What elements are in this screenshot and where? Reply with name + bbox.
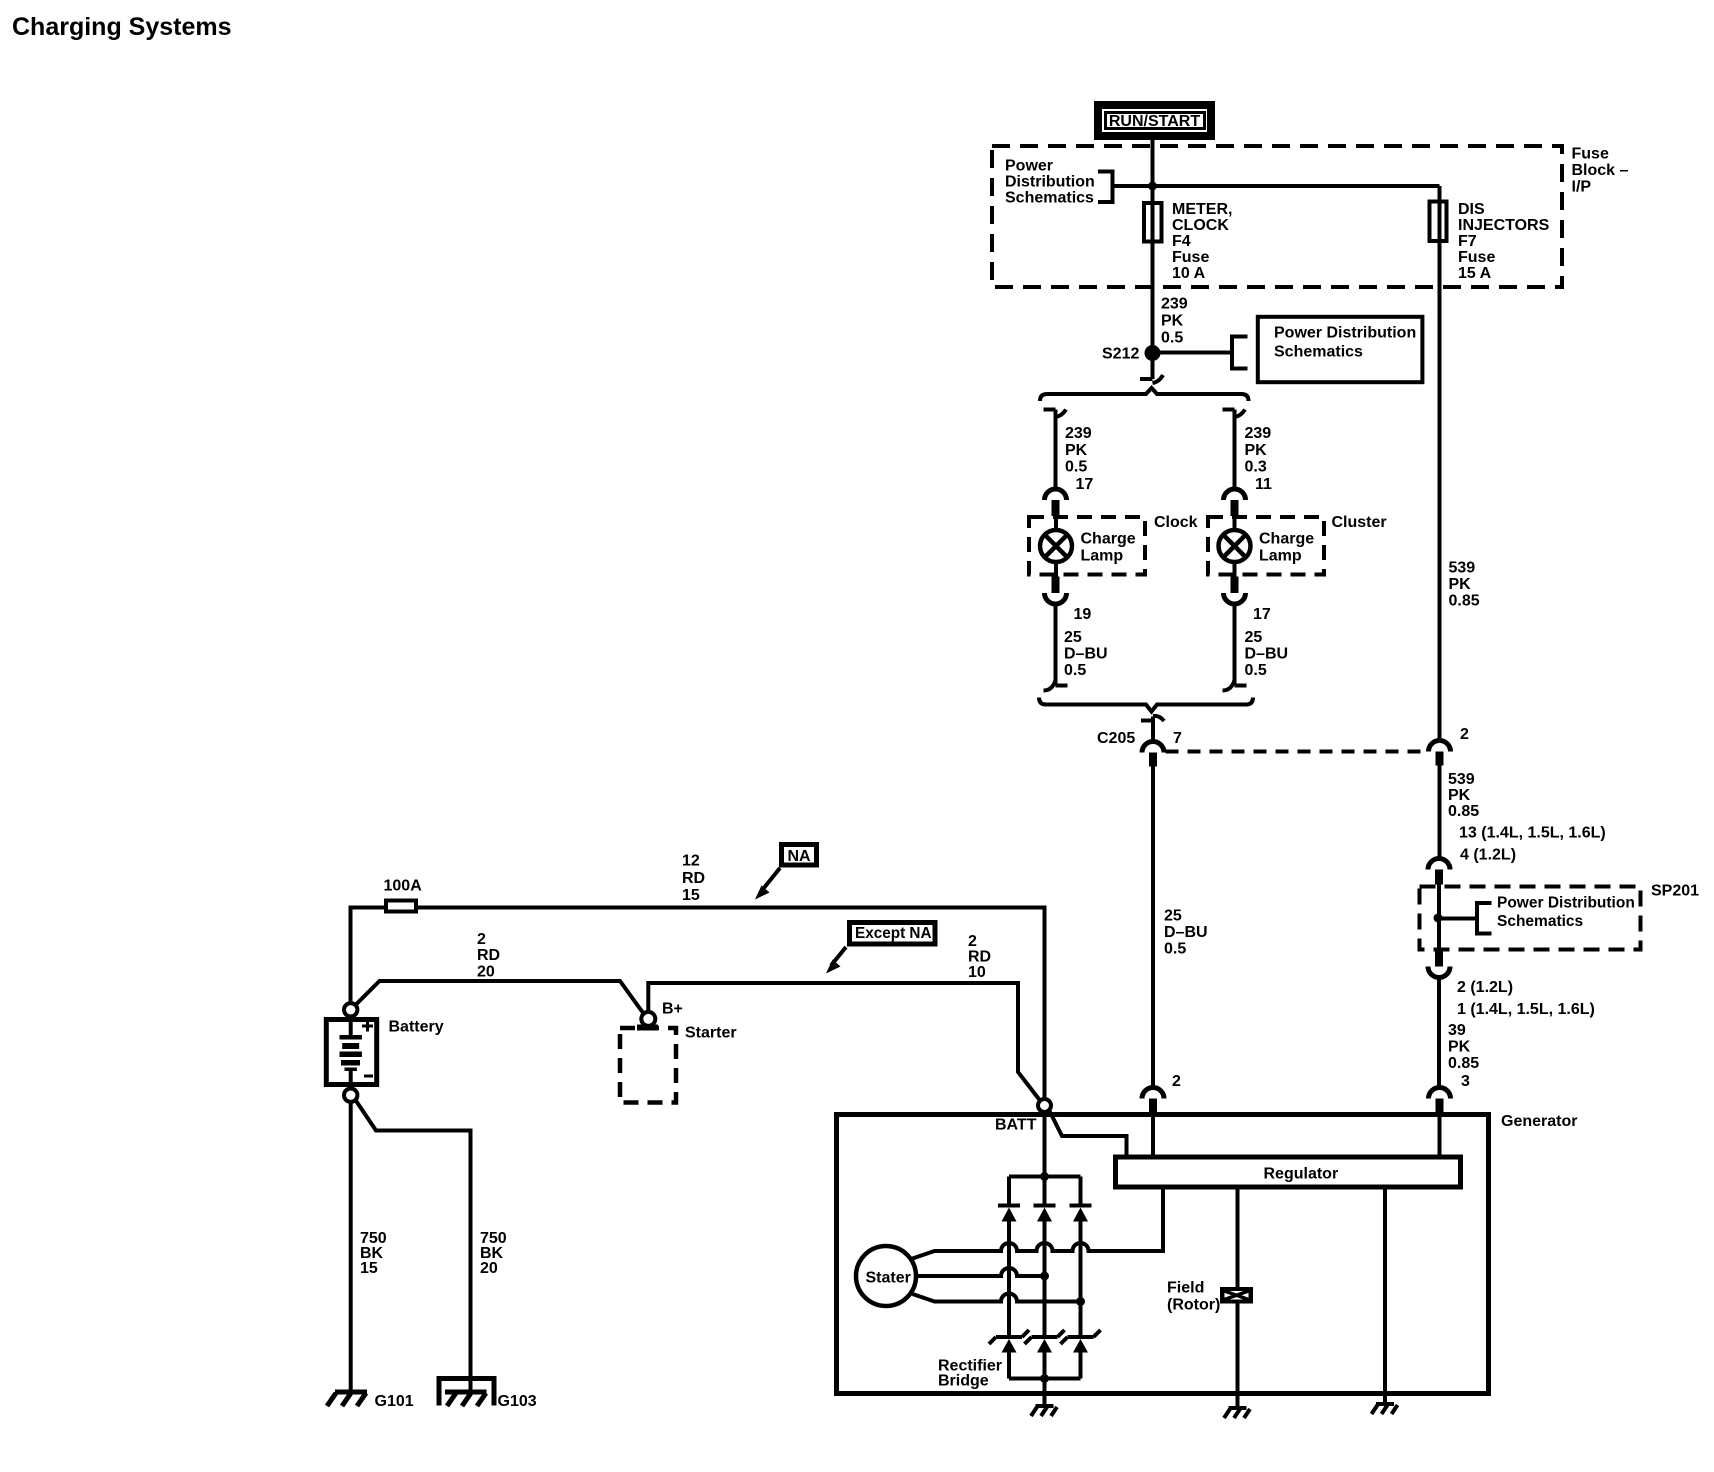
svg-text:Fuse: Fuse xyxy=(1572,146,1609,163)
svg-text:0.5: 0.5 xyxy=(1245,662,1267,679)
wire stator phase A to regulator xyxy=(913,1243,1164,1259)
svg-text:Generator: Generator xyxy=(1501,1113,1577,1130)
svg-text:12: 12 xyxy=(682,853,700,870)
wire label 239 PK 0.5 clock xyxy=(1065,425,1092,476)
svg-text:20: 20 xyxy=(477,964,495,981)
fuse 100A xyxy=(386,901,416,912)
starter dashed box xyxy=(620,1025,737,1103)
wire pin 2 to regulator xyxy=(1151,1112,1155,1155)
wire cluster branch upper xyxy=(1233,410,1237,491)
svg-text:10: 10 xyxy=(968,964,986,981)
svg-text:PK: PK xyxy=(1161,313,1184,330)
field rotor symbol xyxy=(1220,1287,1253,1304)
svg-text:Except NA: Except NA xyxy=(855,925,932,942)
svg-text:Cluster: Cluster xyxy=(1332,514,1387,531)
svg-text:0.5: 0.5 xyxy=(1164,941,1186,958)
wire field to ground xyxy=(1236,1304,1240,1409)
ground G103 xyxy=(439,1379,537,1411)
dashed box clock xyxy=(1029,517,1145,575)
power distribution schematics reference bracket xyxy=(1005,158,1113,207)
svg-text:Bridge: Bridge xyxy=(938,1373,989,1390)
svg-text:25: 25 xyxy=(1064,629,1082,646)
wire label 25 D-BU 0.5 cluster xyxy=(1245,629,1289,679)
junction dot top bus xyxy=(1040,1172,1049,1181)
fuse F4 xyxy=(1144,203,1162,242)
connector end below S212 xyxy=(1140,375,1163,383)
svg-text:B+: B+ xyxy=(662,1001,683,1018)
svg-text:4 (1.2L): 4 (1.2L) xyxy=(1460,847,1516,864)
svg-text:2: 2 xyxy=(477,931,486,948)
svg-text:D–BU: D–BU xyxy=(1164,924,1208,941)
svg-text:25: 25 xyxy=(1164,908,1182,925)
svg-text:G103: G103 xyxy=(498,1393,537,1410)
svg-text:25: 25 xyxy=(1245,629,1263,646)
svg-text:2: 2 xyxy=(1172,1073,1181,1090)
lamp charge lamp cluster xyxy=(1219,517,1315,577)
svg-text:METER,: METER, xyxy=(1172,201,1232,218)
label fuse F4 METER CLOCK xyxy=(1172,201,1232,282)
wire 2 RD 20 battery to starter xyxy=(355,981,643,1014)
svg-text:19: 19 xyxy=(1074,606,1092,623)
svg-text:39: 39 xyxy=(1448,1022,1466,1039)
lamp charge lamp clock xyxy=(1040,517,1136,577)
zener Z1 xyxy=(989,1330,1029,1353)
svg-text:PK: PK xyxy=(1448,1039,1471,1056)
connector terminal into SP201 xyxy=(1428,859,1450,885)
diode D3 xyxy=(1070,1206,1092,1222)
svg-text:RD: RD xyxy=(477,947,500,964)
svg-text:2: 2 xyxy=(1460,726,1469,743)
svg-text:0.5: 0.5 xyxy=(1064,662,1086,679)
svg-text:Starter: Starter xyxy=(685,1025,737,1042)
connector end top of cluster branch xyxy=(1223,410,1246,418)
label power distribution schematics SP201 xyxy=(1497,895,1635,931)
wire BATT down to rectifier bridge xyxy=(1043,1112,1047,1204)
svg-text:0.85: 0.85 xyxy=(1448,1055,1479,1072)
junction dot phase B column 2 xyxy=(1040,1272,1049,1281)
wire 2 RD 10 starter to BATT xyxy=(648,983,1040,1101)
rectifier bridge bottom bus xyxy=(1009,1377,1081,1381)
svg-text:17: 17 xyxy=(1253,606,1271,623)
svg-text:Charging Systems: Charging Systems xyxy=(12,13,232,41)
wire label 750 BK 20 xyxy=(480,1230,507,1277)
svg-text:15: 15 xyxy=(682,887,700,904)
wire regulator to field xyxy=(1236,1190,1240,1288)
svg-text:Power: Power xyxy=(1005,158,1053,175)
svg-text:D–BU: D–BU xyxy=(1064,646,1108,663)
connector end top of clock branch xyxy=(1044,410,1067,418)
wire rectifier column 3 lower xyxy=(1079,1353,1083,1379)
svg-text:CLOCK: CLOCK xyxy=(1172,217,1229,234)
svg-text:0.5: 0.5 xyxy=(1161,330,1183,347)
svg-text:11: 11 xyxy=(1255,476,1272,493)
wire C205 down to generator xyxy=(1151,766,1155,1088)
diode D1 xyxy=(998,1206,1020,1222)
wire rectifier column 1 upper xyxy=(1007,1177,1011,1204)
junction dot at RUN/START feed xyxy=(1148,182,1157,191)
svg-text:539: 539 xyxy=(1449,560,1476,577)
connector C205 pin 7 xyxy=(1097,716,1182,767)
svg-text:F4: F4 xyxy=(1172,233,1191,250)
wire label 239 PK 0.5 xyxy=(1161,296,1188,347)
svg-text:Schematics: Schematics xyxy=(1274,344,1363,361)
wire rectifier column 2 lower xyxy=(1043,1353,1047,1407)
svg-text:Power Distribution: Power Distribution xyxy=(1497,895,1635,912)
svg-text:Regulator: Regulator xyxy=(1264,1166,1339,1183)
svg-text:Charge: Charge xyxy=(1259,531,1314,548)
label rectifier bridge xyxy=(938,1358,1002,1390)
battery xyxy=(326,1003,443,1102)
svg-text:15: 15 xyxy=(360,1260,378,1277)
svg-text:SP201: SP201 xyxy=(1651,883,1699,900)
svg-text:PK: PK xyxy=(1065,442,1088,459)
wire fuse F7 down right side xyxy=(1438,186,1442,741)
wire stator phase B xyxy=(916,1268,1045,1276)
wire to SP201 xyxy=(1438,766,1442,862)
svg-text:17: 17 xyxy=(1076,476,1094,493)
connector terminal into cluster xyxy=(1224,489,1246,516)
wire regulator to ground xyxy=(1383,1190,1387,1405)
bracket to power distribution schematics SP201 xyxy=(1477,903,1492,934)
svg-text:F7: F7 xyxy=(1458,233,1477,250)
wire label 239 PK 0.3 cluster xyxy=(1245,425,1272,476)
box power distribution schematics xyxy=(1258,317,1423,382)
svg-text:Clock: Clock xyxy=(1154,514,1198,531)
svg-text:Charge: Charge xyxy=(1081,531,1136,548)
svg-text:100A: 100A xyxy=(384,878,423,895)
svg-text:0.3: 0.3 xyxy=(1245,459,1267,476)
fuse F7 xyxy=(1430,202,1447,242)
svg-text:1 (1.4L, 1.5L, 1.6L): 1 (1.4L, 1.5L, 1.6L) xyxy=(1457,1001,1595,1018)
wire rectifier column 1 middle xyxy=(1007,1222,1011,1336)
svg-text:Power Distribution: Power Distribution xyxy=(1274,325,1416,342)
wire pin 3 to regulator xyxy=(1438,1112,1442,1155)
ground G101 xyxy=(327,1392,414,1410)
connector terminal out of clock xyxy=(1045,577,1067,605)
svg-text:2 (1.2L): 2 (1.2L) xyxy=(1457,979,1513,996)
wire rectifier column 2 middle xyxy=(1043,1222,1047,1336)
callout Except NA xyxy=(826,923,935,974)
svg-text:C205: C205 xyxy=(1097,730,1135,747)
svg-text:13 (1.4L, 1.5L, 1.6L): 13 (1.4L, 1.5L, 1.6L) xyxy=(1459,825,1606,842)
svg-text:15 A: 15 A xyxy=(1458,265,1492,282)
wire BATT to regulator xyxy=(1049,1110,1127,1155)
regulator box xyxy=(1116,1157,1461,1187)
wire SP201 to bracket xyxy=(1438,917,1477,921)
svg-text:Stater: Stater xyxy=(866,1270,911,1287)
svg-text:239: 239 xyxy=(1161,296,1188,313)
svg-text:Field: Field xyxy=(1167,1280,1204,1297)
svg-text:I/P: I/P xyxy=(1572,179,1592,196)
wire 12 RD 15 fuse to BATT xyxy=(418,908,1045,1100)
generator box xyxy=(837,1115,1489,1394)
diode D2 xyxy=(1034,1206,1056,1222)
svg-text:(Rotor): (Rotor) xyxy=(1167,1297,1220,1314)
wire S212 to reference bracket xyxy=(1153,351,1233,355)
svg-text:Battery: Battery xyxy=(389,1019,444,1036)
connector terminal out of cluster xyxy=(1224,577,1246,605)
svg-text:Fuse: Fuse xyxy=(1172,249,1209,266)
wire rectifier column 3 middle xyxy=(1079,1222,1083,1336)
rectifier bridge top bus xyxy=(1009,1175,1081,1179)
switch RUN/START xyxy=(1098,105,1211,136)
svg-text:0.85: 0.85 xyxy=(1448,803,1479,820)
wire regulator sense pin xyxy=(1161,1190,1165,1254)
bracket to power distribution schematics xyxy=(1232,337,1248,369)
wire RUN/START down through fuse F4 to S212 xyxy=(1151,140,1155,379)
wire 750 BK 20 battery to G103 xyxy=(355,1100,470,1392)
wire through SP201 xyxy=(1437,885,1441,952)
dashed box cluster xyxy=(1208,517,1324,575)
connector terminal into clock xyxy=(1045,489,1067,516)
wire clock branch lower xyxy=(1054,604,1058,686)
label fuse F7 DIS INJECTORS xyxy=(1458,201,1550,282)
label Fuse Block - I/P xyxy=(1572,146,1629,196)
svg-text:Fuse: Fuse xyxy=(1458,249,1495,266)
svg-text:Schematics: Schematics xyxy=(1005,190,1094,207)
zener Z3 xyxy=(1061,1330,1101,1353)
svg-text:0.85: 0.85 xyxy=(1449,593,1480,610)
wire label 539 PK 0.85 upper xyxy=(1449,560,1480,610)
stator xyxy=(856,1246,916,1306)
svg-text:Lamp: Lamp xyxy=(1081,548,1124,565)
connector end bottom of clock branch xyxy=(1044,680,1068,691)
junction dot SP201 xyxy=(1434,914,1443,923)
terminal BATT xyxy=(995,1099,1051,1134)
svg-text:RD: RD xyxy=(682,870,705,887)
wire label 12 RD 15 xyxy=(682,853,705,905)
svg-text:RD: RD xyxy=(968,949,991,966)
connector pin 2 right branch xyxy=(1429,726,1470,766)
svg-text:0.5: 0.5 xyxy=(1065,459,1087,476)
svg-text:PK: PK xyxy=(1245,442,1268,459)
wire clock branch upper xyxy=(1054,410,1058,491)
svg-text:Lamp: Lamp xyxy=(1259,548,1302,565)
wire cluster branch lower xyxy=(1233,604,1237,686)
svg-text:10 A: 10 A xyxy=(1172,265,1206,282)
svg-text:S212: S212 xyxy=(1102,346,1139,363)
svg-text:3: 3 xyxy=(1461,1073,1470,1090)
svg-text:2: 2 xyxy=(968,933,977,950)
svg-text:PK: PK xyxy=(1448,787,1471,804)
connector terminal generator pin 2 xyxy=(1142,1088,1164,1113)
wire label 750 BK 15 xyxy=(360,1230,387,1277)
ground regulator xyxy=(1372,1404,1398,1414)
junction dot phase C column 3 xyxy=(1076,1297,1085,1306)
wire label 2 RD 10 xyxy=(968,933,991,981)
svg-text:G101: G101 xyxy=(375,1393,414,1410)
wire from bracket to fuse F7 xyxy=(1113,184,1440,188)
svg-text:NA: NA xyxy=(787,848,811,865)
splice pack SP201 dashed box xyxy=(1420,887,1641,950)
wire label 539 PK 0.85 lower xyxy=(1448,771,1479,820)
wire stator phase C xyxy=(913,1294,1081,1302)
zener Z2 xyxy=(1025,1330,1065,1353)
junction dot bottom bus xyxy=(1040,1374,1049,1383)
wire rectifier column 1 lower xyxy=(1007,1353,1011,1379)
ground rectifier bridge xyxy=(1031,1406,1057,1416)
svg-text:539: 539 xyxy=(1448,771,1475,788)
wire label 25 D-BU 0.5 clock xyxy=(1064,629,1108,679)
connector terminal out of SP201 xyxy=(1428,952,1450,978)
fuse block I/P dashed box xyxy=(992,146,1562,287)
svg-text:PK: PK xyxy=(1449,576,1472,593)
wire SP201 to generator xyxy=(1437,978,1441,1089)
svg-text:Schematics: Schematics xyxy=(1497,913,1583,930)
brace bottom of lamp branches xyxy=(1039,698,1253,712)
svg-text:BATT: BATT xyxy=(995,1117,1037,1134)
svg-text:Block –: Block – xyxy=(1572,162,1629,179)
wire label 25 D-BU 0.5 main xyxy=(1164,908,1208,958)
wire rectifier column 3 upper xyxy=(1079,1177,1083,1204)
brace top of lamp branches xyxy=(1040,388,1249,401)
connector terminal generator pin 3 xyxy=(1429,1088,1451,1113)
wire battery to fuse 100A xyxy=(351,906,385,910)
ground field xyxy=(1224,1408,1250,1418)
dashed connector link C205 to generator harness xyxy=(1166,750,1429,754)
svg-text:239: 239 xyxy=(1245,425,1272,442)
label field rotor xyxy=(1167,1280,1220,1314)
svg-text:Distribution: Distribution xyxy=(1005,174,1095,191)
svg-text:INJECTORS: INJECTORS xyxy=(1458,217,1550,234)
splice S212 xyxy=(1102,345,1161,363)
wire label 2 RD 20 xyxy=(477,931,500,981)
svg-text:RUN/START: RUN/START xyxy=(1109,113,1200,130)
callout NA xyxy=(755,845,817,900)
svg-text:239: 239 xyxy=(1065,425,1092,442)
wire 750 BK 15 battery to G101 xyxy=(349,1102,353,1392)
svg-text:7: 7 xyxy=(1173,730,1182,747)
wire label 39 PK 0.85 xyxy=(1448,1022,1479,1072)
terminal B+ xyxy=(641,1001,683,1026)
svg-text:DIS: DIS xyxy=(1458,201,1485,218)
svg-text:D–BU: D–BU xyxy=(1245,646,1289,663)
connector end bottom of cluster branch xyxy=(1223,680,1247,691)
svg-text:20: 20 xyxy=(480,1260,498,1277)
